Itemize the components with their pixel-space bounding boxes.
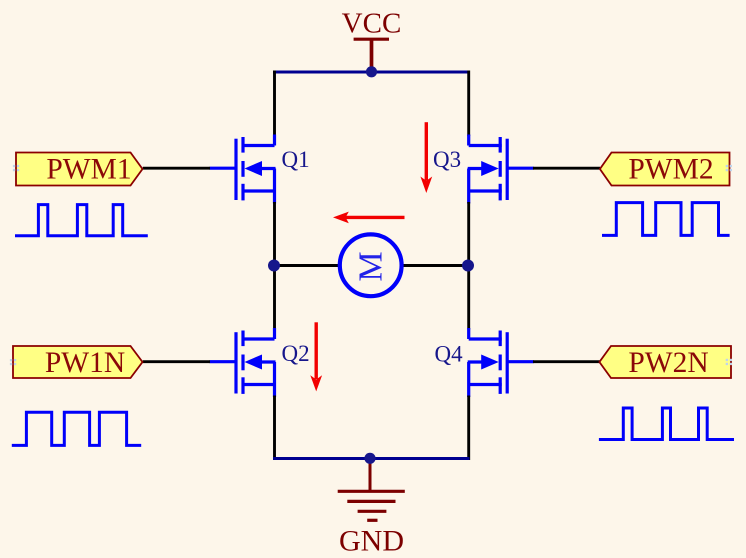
ground symbol GND: [338, 459, 405, 521]
wire Q3 drain to rail: [467, 71, 470, 137]
waveform PW2N (narrow pulses): [599, 408, 734, 440]
transistor Q1: [210, 135, 276, 204]
wire Q2 source to bottom rail: [273, 396, 276, 461]
net label anchor marks PW1N: [10, 359, 16, 365]
wire PW2N flag to Q4 gate: [533, 360, 600, 363]
wire PW1N flag to Q2 gate: [143, 360, 210, 363]
svg-text:Q1: Q1: [282, 147, 310, 172]
wire Q1 drain to rail: [273, 71, 276, 137]
svg-text:PWM1: PWM1: [46, 154, 131, 186]
wire mid-left node to motor: [273, 264, 339, 267]
junction VCC node: [366, 66, 377, 77]
current arrow beside Q2 (red, pointing down): [310, 322, 322, 391]
net flag PW2N: [599, 346, 731, 379]
current arrow through motor (red, pointing left): [333, 212, 405, 224]
junction node B (mid-right): [462, 260, 474, 272]
transistor Q2: [210, 328, 276, 397]
svg-text:GND: GND: [339, 524, 404, 557]
wire PWM1 flag to Q1 gate: [143, 167, 210, 170]
svg-text:PW1N: PW1N: [45, 347, 125, 379]
svg-text:VCC: VCC: [342, 8, 402, 40]
wire VCC top rail: [273, 71, 470, 74]
junction GND node: [364, 453, 375, 464]
net flag PW1N: [13, 346, 143, 379]
transistor Q3 (mirrored): [468, 135, 534, 204]
net flag PWM1: [16, 153, 143, 186]
power symbol VCC: [342, 8, 402, 72]
transistor Q4 (mirrored): [468, 328, 534, 397]
wire Q1 source to mid-left node: [273, 202, 276, 266]
wire mid-right node to Q4 drain: [467, 266, 470, 330]
current arrow beside Q3 (red, pointing down): [420, 122, 432, 193]
junction node A (mid-left): [268, 260, 280, 272]
svg-text:Q3: Q3: [433, 147, 461, 172]
wire PWM2 flag to Q3 gate: [533, 167, 600, 170]
wire GND bottom rail: [273, 457, 470, 460]
svg-text:Q4: Q4: [435, 342, 464, 367]
svg-text:Q2: Q2: [282, 341, 310, 366]
wire Q4 source to bottom rail: [467, 396, 470, 461]
svg-text:PW2N: PW2N: [628, 347, 708, 379]
waveform PW1N (wide pulses): [12, 412, 141, 445]
net label anchor marks PWM2: [726, 165, 732, 171]
wire Q3 source to mid-right node: [467, 202, 470, 266]
motor M1: [340, 234, 402, 296]
wire mid-left node to Q2 drain: [273, 266, 276, 330]
svg-text:PWM2: PWM2: [628, 154, 713, 186]
net label anchor marks PW2N: [726, 359, 732, 365]
net flag PWM2: [600, 153, 730, 186]
svg-text:M: M: [353, 251, 390, 281]
waveform PWM2 (wide pulses): [602, 203, 730, 236]
wire motor to mid-right node: [403, 264, 470, 267]
waveform PWM1 (narrow pulses): [15, 205, 148, 236]
net label anchor marks PWM1: [13, 165, 19, 171]
